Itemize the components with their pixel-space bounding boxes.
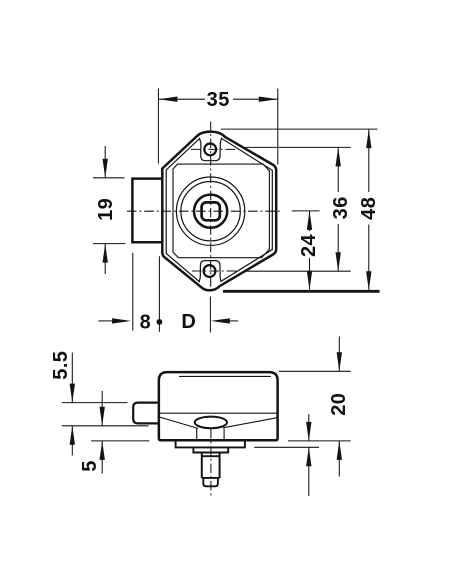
svg-text:48: 48 bbox=[358, 197, 380, 220]
side view V-face right slant bbox=[223, 418, 278, 428]
side view spindle bbox=[201, 453, 203, 478]
dim 48 line bbox=[368, 129, 370, 192]
dim 20 arrows bbox=[338, 337, 340, 372]
svg-text:5: 5 bbox=[79, 460, 101, 472]
svg-text:35: 35 bbox=[207, 89, 230, 111]
side view face split line bbox=[159, 412, 278, 414]
svg-text:20: 20 bbox=[328, 393, 350, 416]
svg-text:36: 36 bbox=[330, 196, 352, 219]
side view centerline bbox=[210, 429, 212, 497]
bottom mounting hole bbox=[204, 265, 216, 277]
cylinder core circle bbox=[194, 195, 227, 228]
square spindle hole bbox=[202, 202, 220, 220]
dim 20 extension top bbox=[279, 370, 351, 372]
flange thickness dim arrows bbox=[308, 414, 310, 441]
dim 36 line bbox=[337, 147, 339, 192]
dim 5.5 extension B bbox=[62, 425, 149, 427]
svg-text:19: 19 bbox=[95, 198, 117, 221]
svg-text:D: D bbox=[181, 311, 196, 333]
cylinder flange circle inner bbox=[181, 182, 240, 241]
side view latch bolt bbox=[133, 403, 159, 424]
raised face octagon bbox=[173, 164, 269, 258]
side view spindle tip bbox=[203, 478, 218, 486]
side view flange bbox=[176, 440, 245, 447]
horizontal centerline front view bbox=[127, 210, 282, 212]
dim D right arrow bbox=[211, 318, 230, 323]
side view centre block edges bbox=[196, 428, 198, 440]
dim 8 extension left bbox=[132, 253, 134, 331]
dim 36 extension top bbox=[246, 146, 351, 148]
dim 20 extension bottom bbox=[288, 440, 351, 442]
dim 35 extension left bbox=[157, 89, 159, 164]
svg-text:24: 24 bbox=[298, 234, 320, 258]
top hole centerline bbox=[191, 148, 238, 150]
dim 19 line arrows bbox=[104, 146, 106, 178]
svg-text:8: 8 bbox=[140, 312, 152, 334]
dim 5.5 extension A bbox=[62, 402, 128, 404]
vertical centerline front view bbox=[210, 122, 212, 293]
dim 19 extensions bbox=[93, 177, 125, 179]
latch bolt front view bbox=[132, 179, 162, 243]
side view collar bbox=[193, 447, 228, 452]
dim 8 left arrow bbox=[98, 320, 114, 322]
svg-text:5.5: 5.5 bbox=[50, 351, 72, 380]
lock housing front view: outer plate outline bbox=[162, 132, 276, 291]
baseline under front view bbox=[223, 290, 380, 293]
dim 35 extension right bbox=[277, 89, 279, 165]
dim 24 extension top bbox=[292, 210, 320, 212]
dim 8 extension right with dot bbox=[158, 256, 160, 332]
dim 48 extension top bbox=[221, 128, 378, 130]
side view boss ellipse bbox=[195, 417, 227, 429]
dim 35 line bbox=[158, 98, 205, 100]
dim 36/24 extension bottom bbox=[246, 270, 351, 272]
inner plate outline with mounting-hole cutouts and claws bbox=[166, 138, 272, 281]
side view top inner edge bbox=[179, 375, 271, 377]
side view V-face left slant bbox=[159, 417, 198, 429]
top mounting hole bbox=[204, 144, 216, 156]
flange bottom extension bbox=[254, 446, 319, 448]
side view body bbox=[159, 372, 278, 440]
dim 5 arrows bbox=[101, 391, 103, 426]
dim 5.5 arrows bbox=[71, 353, 73, 403]
dim 24 line bbox=[309, 211, 311, 231]
bottom hole centerline bbox=[192, 270, 237, 272]
cylinder flange circle outer bbox=[176, 177, 244, 245]
dim 5 extension C bbox=[91, 440, 150, 442]
